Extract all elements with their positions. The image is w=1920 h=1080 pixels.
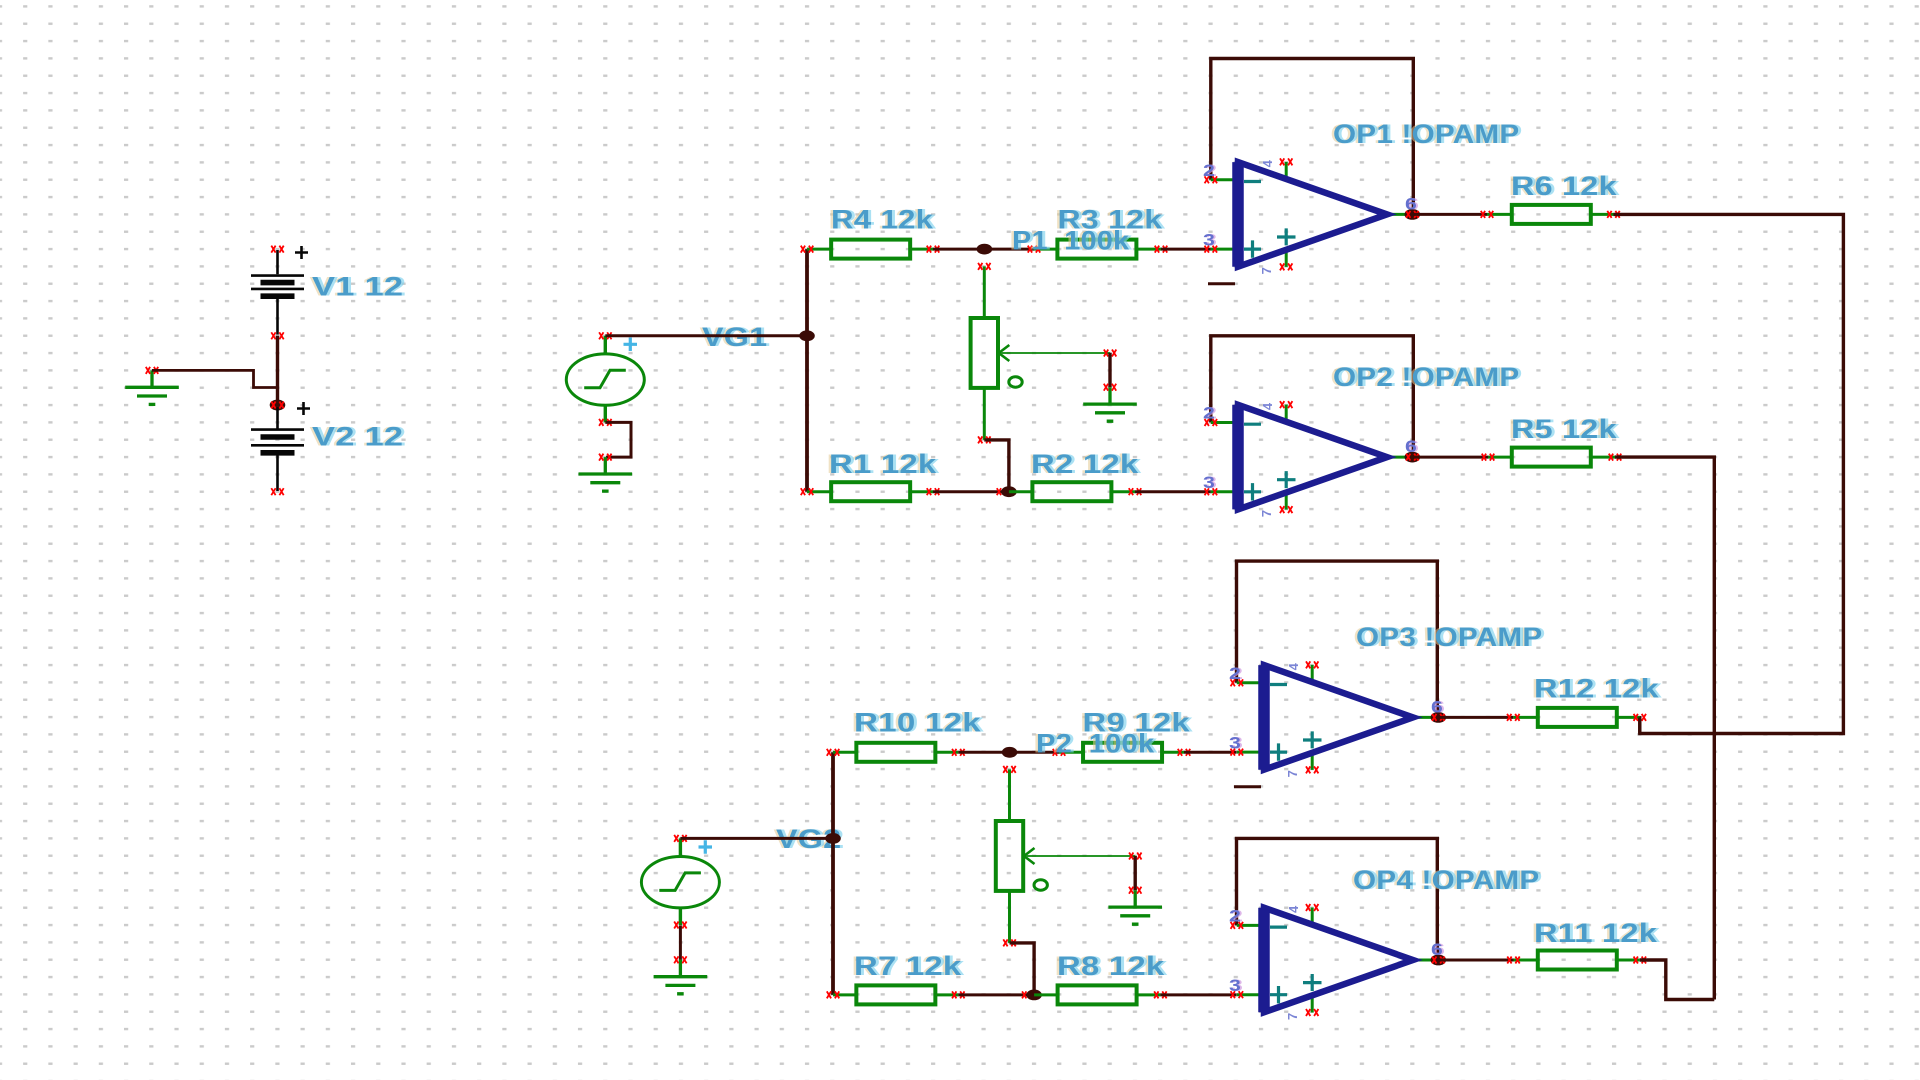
plus marker VG1 [624, 338, 638, 352]
svg-text:2: 2 [1229, 907, 1241, 926]
svg-text:OP4 !OPAMP: OP4 !OPAMP [1353, 865, 1539, 894]
node output [1431, 712, 1447, 723]
wire [933, 490, 1009, 493]
svg-text:R8 12k: R8 12k [1057, 952, 1165, 981]
non-inverting input marker [1270, 986, 1287, 1003]
svg-text:R12 12k: R12 12k [1534, 674, 1659, 703]
resistor R6 [1487, 205, 1614, 224]
wire [1010, 751, 1059, 754]
svg-text:3: 3 [1203, 231, 1215, 250]
V+ marker [1303, 731, 1322, 748]
V+ marker [1277, 228, 1296, 245]
ground (VG2) [654, 956, 708, 994]
node output [1431, 955, 1447, 966]
wire [276, 336, 279, 402]
svg-text:R2 12k: R2 12k [1031, 450, 1139, 479]
resistor R5 [1488, 448, 1615, 467]
wire [1133, 856, 1136, 890]
svg-text:VG1: VG1 [702, 323, 767, 353]
op-amp OP4 !OPAMP [1229, 904, 1446, 1020]
node VG1 net [799, 330, 815, 341]
node P1 bottom [1001, 486, 1017, 497]
triangle body [1264, 908, 1413, 1013]
resistor R10 [833, 743, 958, 762]
svg-text:6: 6 [1431, 941, 1443, 960]
V- net bar [1208, 282, 1235, 285]
svg-text:2: 2 [1203, 405, 1215, 424]
svg-text:7: 7 [1259, 267, 1274, 274]
pin 7 V+ stub [1285, 247, 1288, 267]
svg-text:OP3 !OPAMP: OP3 !OPAMP [1356, 622, 1542, 651]
resistor R2 [1009, 482, 1135, 501]
op-amp OP2 !OPAMP [1203, 401, 1420, 517]
svg-text:R7 12k: R7 12k [854, 952, 962, 981]
pin 6 output stub [1413, 959, 1438, 962]
pin 4 V- stub [1285, 162, 1288, 182]
svg-text:7: 7 [1285, 770, 1300, 777]
ground (P1 wiper) [1083, 384, 1137, 422]
wire [958, 751, 1009, 754]
wire [1108, 353, 1111, 387]
pin 3 (non-inverting input) [1237, 751, 1264, 754]
wire [1615, 457, 1714, 999]
V+ marker [1277, 471, 1296, 488]
V- net bar [1234, 785, 1261, 788]
svg-text:6: 6 [1405, 195, 1417, 214]
non-inverting input marker [1244, 483, 1261, 500]
inverting input marker [1244, 423, 1261, 426]
resistor R1 [807, 482, 933, 501]
svg-text:P2 100k: P2 100k [1036, 729, 1155, 758]
wire [1437, 959, 1513, 962]
resistor R11 [1514, 951, 1640, 970]
wire [1638, 717, 1641, 733]
wire [1413, 456, 1488, 459]
resistor R7 [833, 985, 958, 1004]
svg-text:2: 2 [1203, 162, 1215, 181]
pin 3 (non-inverting input) [1211, 490, 1238, 493]
pin 6 output stub [1387, 456, 1412, 459]
wire [805, 249, 809, 492]
pin 7 V+ stub [1311, 750, 1314, 770]
pin 7 V+ stub [1285, 490, 1288, 510]
non-inverting input marker [1270, 743, 1287, 760]
plus marker VG2 [699, 840, 713, 854]
svg-text:3: 3 [1203, 474, 1215, 493]
wire [1437, 716, 1513, 719]
svg-text:4: 4 [1286, 905, 1301, 913]
wire [605, 422, 631, 457]
ground (P2 wiper) [1108, 887, 1162, 925]
battery V2 [251, 402, 310, 496]
svg-text:6: 6 [1405, 438, 1417, 457]
op-amp OP1 !OPAMP [1203, 158, 1420, 283]
triangle body [1264, 665, 1413, 770]
node P2 top [1002, 747, 1018, 758]
wire [958, 993, 1034, 996]
triangle body [1238, 405, 1387, 510]
svg-text:OP2 !OPAMP: OP2 !OPAMP [1333, 362, 1519, 391]
node battery midpoint [270, 400, 286, 411]
svg-text:R11 12k: R11 12k [1534, 919, 1657, 948]
non-inverting input marker [1244, 240, 1261, 257]
svg-text:6: 6 [1431, 698, 1443, 717]
wire [1237, 838, 1438, 954]
resistor R9 [1059, 743, 1184, 762]
wire [933, 248, 984, 251]
triangle body [1238, 162, 1387, 267]
potentiometer P2 [996, 766, 1142, 947]
wire [1640, 960, 1715, 1000]
wire [1211, 59, 1414, 209]
resistor R3 [1034, 240, 1161, 259]
wire [679, 925, 682, 959]
pin 2 (inverting input) [1211, 421, 1238, 424]
wire [984, 440, 1009, 492]
svg-text:R6 12k: R6 12k [1511, 172, 1617, 202]
svg-text:7: 7 [1259, 510, 1274, 517]
svg-text:4: 4 [1260, 159, 1275, 167]
pin 7 V+ stub [1311, 993, 1314, 1013]
ground (VG1) [579, 454, 633, 492]
wire [1184, 751, 1237, 754]
svg-text:V1 12: V1 12 [312, 271, 403, 301]
potentiometer P1 [971, 263, 1117, 444]
pin 2 (inverting input) [1237, 924, 1264, 927]
svg-text:R1 12k: R1 12k [829, 450, 937, 479]
pin 3 (non-inverting input) [1211, 248, 1238, 251]
pin 4 V- stub [1311, 665, 1314, 685]
ground (left) [125, 367, 179, 405]
svg-text:3: 3 [1229, 734, 1241, 753]
battery V1 [251, 246, 308, 340]
resistor R4 [807, 240, 933, 259]
wire [984, 248, 1034, 251]
node VG2 net [825, 833, 841, 844]
inverting input marker [1244, 180, 1261, 183]
node P1 top [977, 244, 993, 255]
wire [1160, 993, 1236, 996]
wire [831, 752, 835, 995]
node P2 bottom [1026, 990, 1042, 1001]
svg-text:P1 100k: P1 100k [1012, 226, 1130, 256]
wire [1010, 943, 1035, 995]
wire [1614, 214, 1844, 733]
resistor R12 [1513, 708, 1640, 727]
node output [1405, 209, 1421, 220]
pin 2 (inverting input) [1237, 681, 1264, 684]
svg-text:2: 2 [1229, 665, 1241, 684]
voltage generator VG2 [641, 835, 719, 929]
svg-text:R4 12k: R4 12k [831, 206, 934, 235]
wire [605, 334, 807, 337]
svg-text:7: 7 [1285, 1013, 1300, 1020]
svg-text:4: 4 [1286, 662, 1301, 670]
wire [1413, 213, 1487, 216]
svg-text:OP1 !OPAMP: OP1 !OPAMP [1333, 119, 1519, 148]
svg-text:V2 12: V2 12 [312, 421, 403, 451]
wire [1161, 248, 1211, 251]
pin 6 output stub [1387, 213, 1412, 216]
inverting input marker [1270, 683, 1287, 686]
inverting input marker [1270, 925, 1287, 928]
wire [1211, 336, 1414, 451]
svg-text:4: 4 [1260, 402, 1275, 410]
wire [680, 837, 833, 840]
resistor R8 [1034, 985, 1160, 1004]
pin 2 (inverting input) [1211, 178, 1238, 181]
V+ marker [1303, 974, 1322, 991]
wire [1135, 490, 1211, 493]
pin 6 output stub [1413, 716, 1438, 719]
wire [1237, 561, 1438, 711]
wire [152, 370, 276, 387]
node output [1405, 452, 1421, 463]
pin 4 V- stub [1311, 908, 1314, 928]
svg-text:R10 12k: R10 12k [854, 709, 981, 738]
svg-text:3: 3 [1229, 977, 1241, 996]
svg-text:R5 12k: R5 12k [1511, 415, 1617, 445]
op-amp OP3 !OPAMP [1229, 661, 1446, 786]
pin 4 V- stub [1285, 405, 1288, 425]
voltage generator VG1 [566, 332, 644, 426]
pin 3 (non-inverting input) [1237, 993, 1264, 996]
